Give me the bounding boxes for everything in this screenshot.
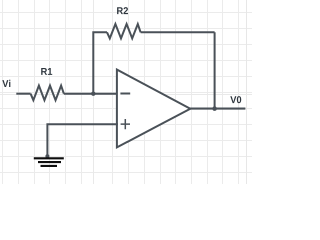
editor guide through node A column xyxy=(93,0,95,184)
ground xyxy=(34,158,64,166)
wire: output xyxy=(190,108,246,110)
editor guide through node A row xyxy=(0,94,252,96)
wire: feedback left vertical riser xyxy=(93,32,107,93)
op-amp inverting pin mark (minus) xyxy=(120,93,130,95)
wire: R2 to output top horizontal xyxy=(141,31,215,33)
label Vi xyxy=(2,80,10,87)
wire: feedback right vertical drop xyxy=(214,32,216,108)
label R1 xyxy=(41,68,52,75)
junction node output xyxy=(212,106,217,111)
canvas boundary line right xyxy=(246,0,248,184)
wire: Vi input lead xyxy=(16,93,30,95)
op-amp non-inverting pin mark (plus) xyxy=(121,119,130,129)
label R2 xyxy=(117,7,128,14)
junction node A (feedback tap on inverting input) xyxy=(91,92,95,96)
resistor R1 xyxy=(31,86,64,101)
wire: R1 to op-amp inverting input xyxy=(64,93,118,95)
label V0 xyxy=(230,96,241,103)
junction dot at ground xyxy=(45,154,49,158)
wire: non-inverting input to ground xyxy=(47,124,118,156)
op-amp U1 xyxy=(117,70,190,148)
resistor R2 xyxy=(107,24,141,38)
